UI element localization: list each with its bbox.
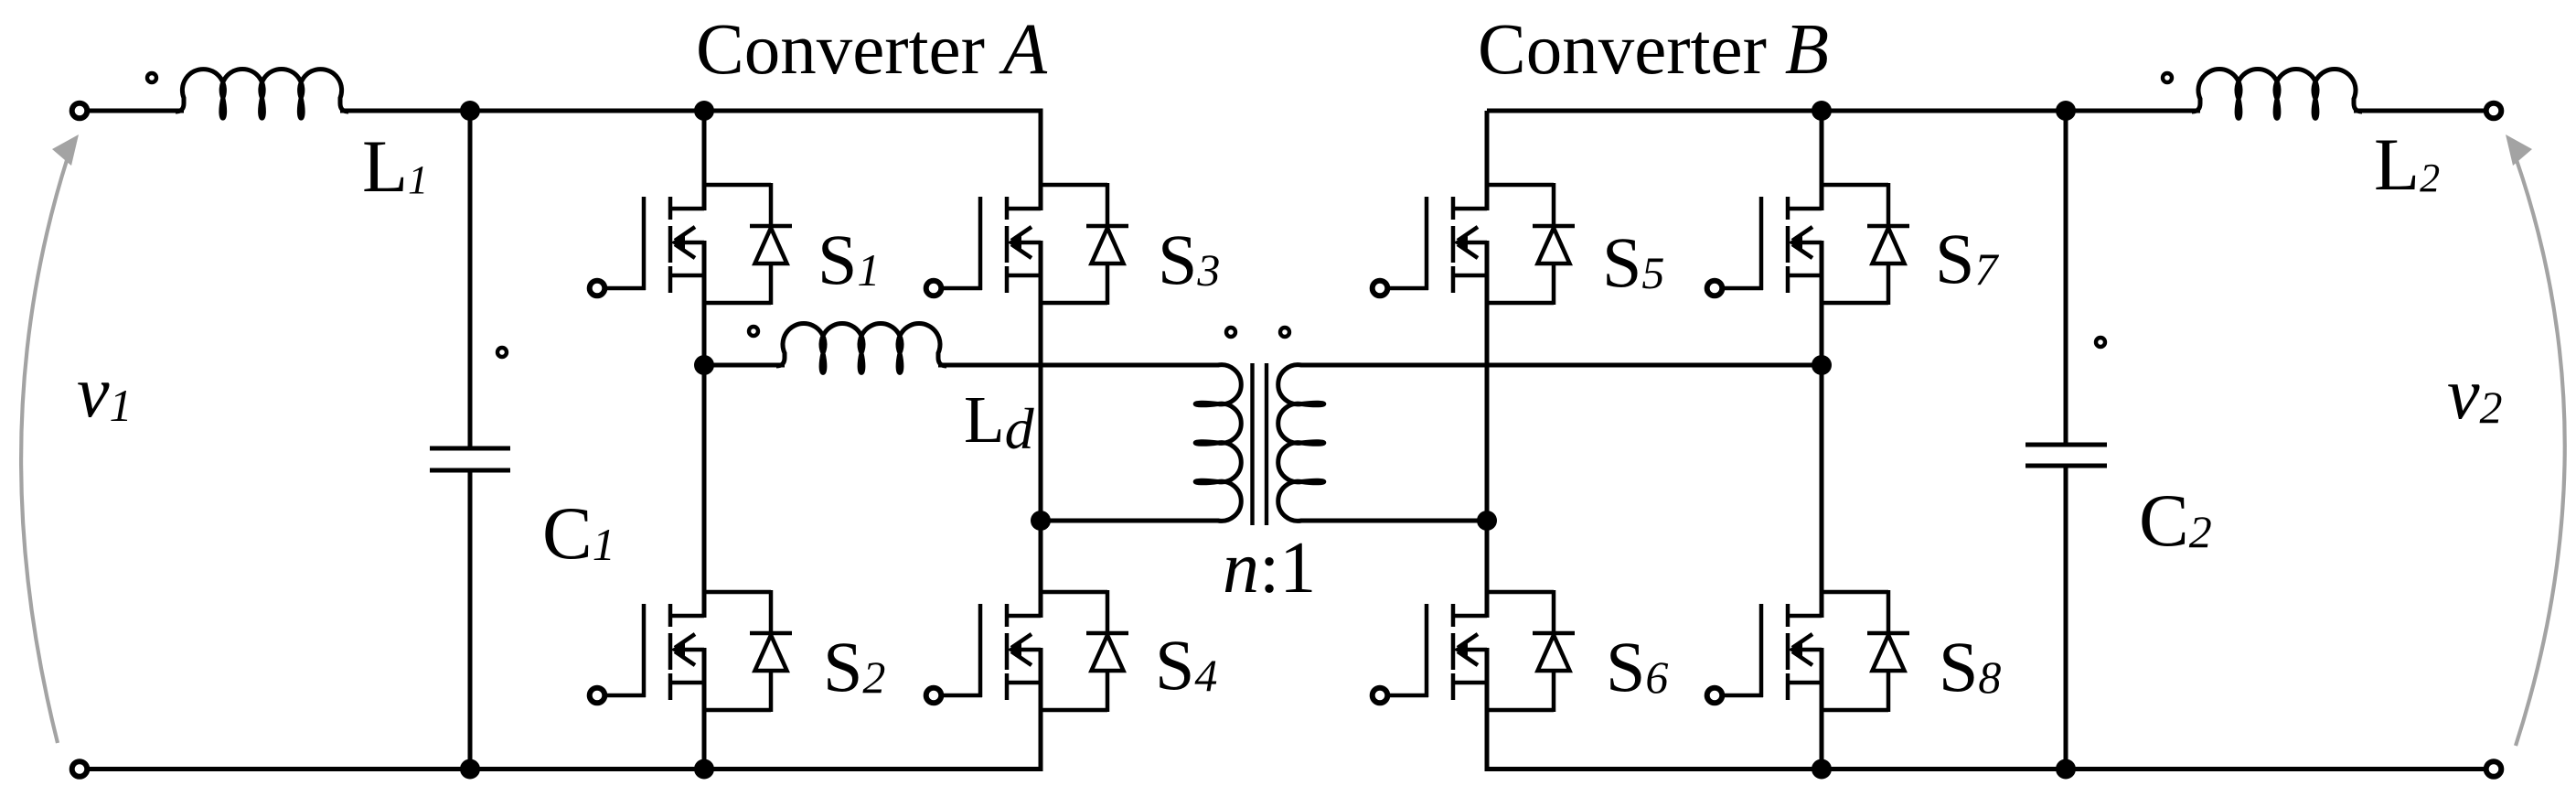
- S1 channel: [668, 197, 673, 293]
- L2 polarity dot: [2163, 73, 2172, 82]
- S8 gate terminal: [1707, 688, 1723, 704]
- S4 drain: [1007, 614, 1041, 619]
- S6 channel: [1451, 604, 1456, 700]
- S4 trunk: [1039, 590, 1043, 712]
- capacitor C2: [2026, 111, 2107, 769]
- inductor L1: [176, 69, 348, 118]
- wire S4 source to rail: [1039, 710, 1043, 769]
- wire bottom rail converter A: [87, 767, 1043, 771]
- S3 body diode: [1041, 183, 1128, 305]
- S1 trunk: [702, 183, 707, 305]
- label Converter A: [696, 10, 1048, 90]
- S2 gate lead: [606, 604, 646, 697]
- junction C2 top: [2056, 101, 2076, 121]
- node B junction: [1031, 511, 1051, 531]
- terminal input top-left: [72, 103, 88, 119]
- S4 channel: [1005, 604, 1010, 700]
- S3 channel: [1005, 197, 1010, 293]
- transformer secondary polarity dot: [1280, 328, 1289, 337]
- wire S8 source to rail: [1820, 710, 1824, 769]
- svg-text:n:1: n:1: [1223, 528, 1316, 608]
- S8 source: [1788, 681, 1822, 685]
- transformer primary polarity dot: [1226, 328, 1235, 337]
- S2 drain: [670, 614, 704, 619]
- node A junction: [694, 355, 714, 375]
- wire top rail converter B: [1487, 109, 2200, 113]
- S4 gate terminal: [926, 688, 942, 704]
- wire node B to transformer primary bottom: [1041, 519, 1219, 523]
- transistor S3: [926, 183, 1128, 305]
- node C junction: [1477, 511, 1497, 531]
- svg-text:Converter B: Converter B: [1478, 10, 1829, 90]
- S1 source: [670, 274, 704, 278]
- S3 body arrow: [1007, 227, 1041, 258]
- transistor S1: [590, 183, 792, 305]
- wire transformer secondary bottom to node C: [1300, 519, 1487, 523]
- S7 gate terminal: [1707, 281, 1723, 296]
- S5 drain: [1453, 207, 1487, 211]
- capacitor C1: [430, 111, 510, 769]
- label Ld: [964, 382, 1035, 461]
- S2 gate terminal: [590, 688, 605, 704]
- wire bottom rail converter B: [1485, 767, 2487, 771]
- terminal output bottom-right: [2486, 761, 2502, 777]
- wire leg1 drain: [702, 111, 707, 186]
- S7 body diode: [1822, 183, 1909, 305]
- S7 body arrow: [1788, 227, 1822, 258]
- transistor S6: [1373, 590, 1575, 712]
- S6 trunk: [1485, 590, 1490, 712]
- transistor S4: [926, 590, 1128, 712]
- label Converter B: [1478, 10, 1829, 90]
- S7 channel: [1786, 197, 1790, 293]
- junction bottom rail leg1: [694, 759, 714, 780]
- arrow v1: [21, 134, 79, 743]
- wire S5 source to node C: [1485, 303, 1490, 521]
- S7 source: [1788, 274, 1822, 278]
- S6 gate lead: [1389, 604, 1428, 697]
- junction top rail leg1: [694, 101, 714, 121]
- S8 gate lead: [1724, 604, 1763, 697]
- wire S8 drain: [1820, 365, 1824, 593]
- junction bottom rail leg7: [1812, 759, 1832, 780]
- arrow v2: [2506, 134, 2565, 746]
- S4 source: [1007, 681, 1041, 685]
- S7 gate lead: [1724, 197, 1763, 290]
- label S5: [1602, 222, 1664, 302]
- S3 gate terminal: [926, 281, 942, 296]
- label S3: [1158, 220, 1220, 299]
- S8 trunk: [1820, 590, 1824, 712]
- inductor L2: [2192, 70, 2362, 119]
- S1 body arrow: [670, 227, 704, 258]
- transistor S7: [1707, 183, 1909, 305]
- svg-text:Converter A: Converter A: [696, 10, 1048, 90]
- S6 gate terminal: [1373, 688, 1388, 704]
- wire top rail corner leg2: [1039, 111, 1043, 186]
- wire Ld to transformer primary top: [938, 363, 1219, 368]
- S6 drain: [1453, 614, 1487, 619]
- S2 channel: [668, 604, 673, 700]
- label C2: [2139, 479, 2212, 562]
- wire node A to Ld: [704, 363, 785, 368]
- label L2: [2374, 123, 2440, 206]
- S1 drain: [670, 207, 704, 211]
- transistor S8: [1707, 590, 1909, 712]
- S5 body diode: [1487, 183, 1575, 305]
- wire L2 to right terminal: [2354, 109, 2486, 113]
- S1 gate lead: [606, 197, 646, 290]
- junction C2 bottom: [2056, 759, 2076, 780]
- S5 gate terminal: [1373, 281, 1388, 296]
- junction top rail leg7: [1812, 101, 1832, 121]
- wire S2 drain: [702, 365, 707, 593]
- S8 body diode: [1822, 590, 1909, 712]
- S5 trunk: [1485, 183, 1490, 305]
- S3 source: [1007, 274, 1041, 278]
- wire S7 source to node D: [1820, 303, 1824, 365]
- label S4: [1155, 625, 1217, 705]
- S5 body arrow: [1453, 227, 1487, 258]
- S1 gate terminal: [590, 281, 605, 296]
- S7 trunk: [1820, 183, 1824, 305]
- wire top-left terminal to L1: [87, 109, 184, 113]
- label n:1: [1223, 528, 1316, 608]
- C1 polarity dot: [497, 348, 507, 357]
- wire transformer secondary top to node D: [1300, 363, 1822, 368]
- label S2: [823, 627, 885, 706]
- S3 gate lead: [943, 197, 982, 290]
- Ld polarity dot: [749, 327, 758, 336]
- S4 body arrow: [1007, 634, 1041, 665]
- label S1: [818, 220, 880, 299]
- S2 body arrow: [670, 634, 704, 665]
- transformer core: [1253, 363, 1267, 525]
- transistor S5: [1373, 183, 1575, 305]
- S6 source: [1453, 681, 1487, 685]
- label S8: [1939, 627, 2001, 706]
- wire S1 source to node A: [702, 303, 707, 365]
- terminal output top-right: [2486, 103, 2502, 119]
- label L1: [362, 124, 428, 208]
- label C1: [542, 491, 615, 575]
- S5 source: [1453, 274, 1487, 278]
- S8 channel: [1786, 604, 1790, 700]
- wire top rail corner leg5: [1485, 111, 1490, 186]
- inductor Ld: [776, 324, 946, 373]
- wire S4 drain: [1039, 521, 1043, 593]
- transformer primary winding: [1195, 365, 1241, 522]
- wire leg7 drain: [1820, 111, 1824, 186]
- junction C1 bottom: [460, 759, 480, 780]
- wire S6 source to rail: [1485, 710, 1490, 769]
- S2 trunk: [702, 590, 707, 712]
- node D junction: [1812, 355, 1832, 375]
- S5 gate lead: [1389, 197, 1428, 290]
- wire L1 to converter A: [340, 109, 1043, 113]
- L1 polarity dot: [147, 73, 156, 82]
- S2 body diode: [704, 590, 792, 712]
- wire S3 source to node B: [1039, 303, 1043, 521]
- S2 source: [670, 681, 704, 685]
- terminal input bottom-left: [72, 761, 88, 777]
- label S7: [1935, 219, 1999, 298]
- S6 body diode: [1487, 590, 1575, 712]
- C2 polarity dot: [2096, 338, 2105, 347]
- wire S2 source to rail: [702, 710, 707, 769]
- S4 body diode: [1041, 590, 1128, 712]
- label v1: [77, 352, 133, 433]
- transistor S2: [590, 590, 792, 712]
- S8 body arrow: [1788, 634, 1822, 665]
- junction C1 top: [460, 101, 480, 121]
- label S6: [1606, 627, 1668, 706]
- S8 drain: [1788, 614, 1822, 619]
- S4 gate lead: [943, 604, 982, 697]
- S7 drain: [1788, 207, 1822, 211]
- S5 channel: [1451, 197, 1456, 293]
- S3 drain: [1007, 207, 1041, 211]
- wire S6 drain: [1485, 521, 1490, 593]
- S6 body arrow: [1453, 634, 1487, 665]
- S1 body diode: [704, 183, 792, 305]
- transformer secondary winding: [1278, 365, 1324, 522]
- label v2: [2447, 354, 2503, 435]
- S3 trunk: [1039, 183, 1043, 305]
